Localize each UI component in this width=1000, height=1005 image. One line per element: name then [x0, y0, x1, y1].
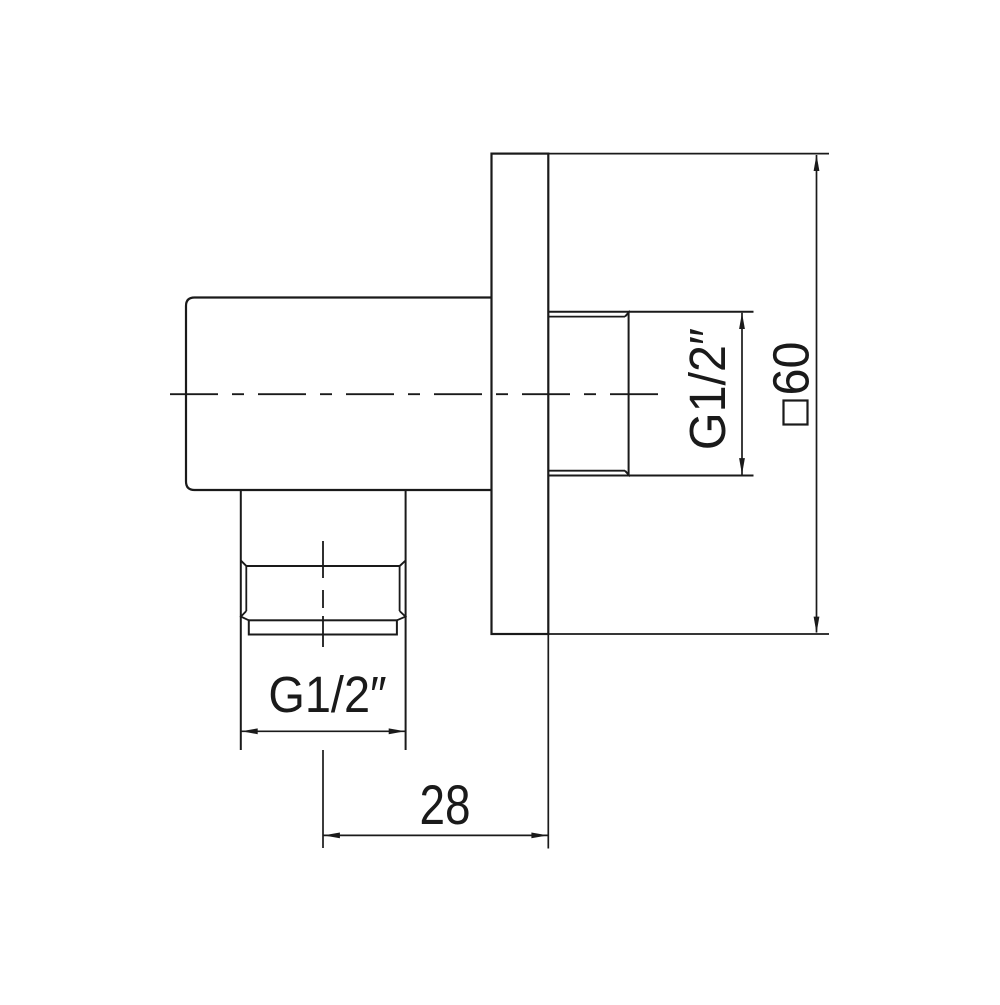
outlet thread start line	[241, 561, 405, 566]
outlet end cap	[249, 620, 397, 634]
vertical centerline	[322, 541, 324, 647]
outlet bottom chamfer right	[397, 611, 406, 620]
nipple thread root top	[548, 316, 625, 318]
dimG12 right arrow up	[739, 313, 745, 329]
dimG12 bottom arrow right	[389, 728, 405, 734]
dimG12 right line	[741, 313, 743, 475]
wall plate	[492, 154, 549, 634]
body (horizontal block, rounded left corners)	[186, 298, 492, 491]
svg-text:28: 28	[419, 774, 470, 836]
dim28 arrow left	[324, 833, 340, 839]
dim60 extension bottom	[548, 633, 829, 635]
horizontal centerline	[170, 393, 663, 395]
nipple end face	[625, 313, 629, 475]
dim60 extension top	[548, 153, 829, 155]
dim60 line	[816, 155, 818, 633]
nipple crest bottom (doubles as extension line)	[548, 475, 753, 477]
dim28 arrow right	[531, 833, 547, 839]
nipple crest top (doubles as extension line)	[548, 311, 753, 313]
label square60 symbol	[784, 401, 808, 425]
outlet crest left (doubles as extension line)	[240, 490, 242, 750]
dim60 arrow up	[814, 155, 820, 171]
svg-text:G1/2″: G1/2″	[679, 328, 736, 450]
dimG12 bottom line	[241, 730, 406, 732]
outlet thread root right	[399, 566, 401, 611]
dim60 arrow down	[814, 617, 820, 633]
dim28 extension left	[322, 750, 324, 848]
svg-text:60: 60	[762, 342, 819, 396]
dim28 extension right	[547, 634, 549, 849]
nipple thread root bottom	[548, 470, 625, 472]
outlet crest right (doubles as extension line)	[405, 490, 407, 750]
dimG12 bottom arrow left	[241, 728, 257, 734]
outlet bottom chamfer left	[241, 611, 249, 620]
dim28 line	[323, 834, 548, 836]
svg-text:G1/2″: G1/2″	[268, 667, 386, 723]
dimG12 right arrow down	[739, 458, 745, 474]
outlet thread root left	[245, 566, 247, 611]
